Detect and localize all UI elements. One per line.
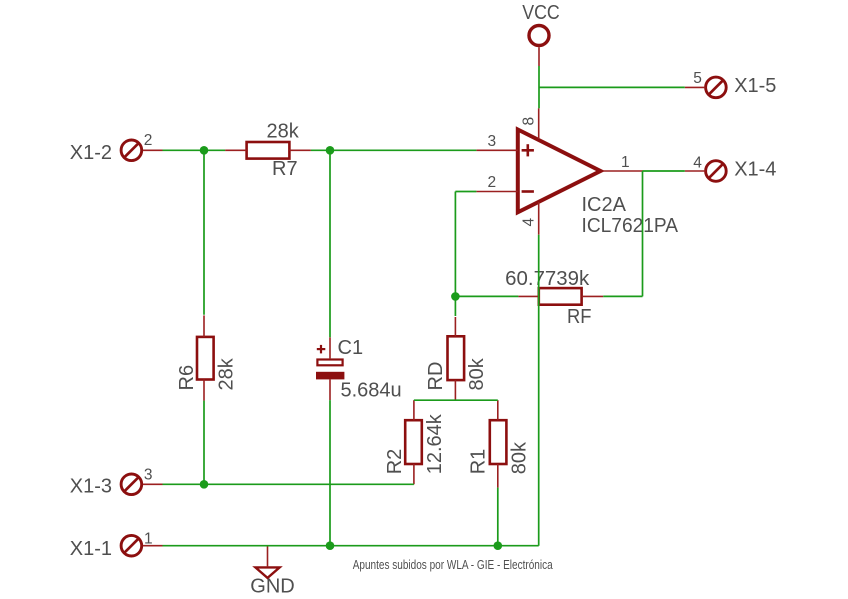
pin stub op-amp pin 1 <box>603 170 643 172</box>
junction node G (ground rail / C1) <box>326 541 335 550</box>
junction node A <box>200 146 209 155</box>
svg-text:R6: R6 <box>176 365 198 391</box>
svg-text:2: 2 <box>144 132 153 149</box>
pin stub X1-2 <box>143 149 163 151</box>
capacitor C1 bottom plate <box>316 372 344 380</box>
terminal X1-3 <box>121 474 142 495</box>
svg-text:R7: R7 <box>272 158 298 180</box>
wire pin2 horizontal <box>455 191 476 193</box>
pin stub X1-4 <box>685 170 706 172</box>
resistor R7 <box>247 142 290 159</box>
svg-text:R2: R2 <box>384 449 406 475</box>
svg-text:C1: C1 <box>338 337 364 359</box>
terminal X1-1 <box>121 535 142 556</box>
capacitor C1 plus sign <box>317 345 326 354</box>
pin stub X1-1 <box>143 545 163 547</box>
wire X1-2 to R7 <box>163 149 226 151</box>
pin stub R7 right <box>289 149 311 151</box>
pin stub R7 left <box>225 149 247 151</box>
pin stub X1-3 <box>143 483 163 485</box>
resistor R6 <box>197 337 214 380</box>
pin stub C1 top <box>329 337 331 358</box>
op-amp minus input mark <box>522 190 534 193</box>
pin stub op-amp pin 3 <box>476 149 517 151</box>
svg-text:X1-1: X1-1 <box>70 538 112 560</box>
svg-text:3: 3 <box>488 133 497 150</box>
wire R6 to X1-3 rail <box>203 401 205 485</box>
pin stub RF left <box>518 295 538 297</box>
op-amp U1 triangle <box>518 130 601 213</box>
svg-text:8: 8 <box>521 117 538 126</box>
wire output to X1-4 <box>643 170 685 172</box>
svg-text:R1: R1 <box>468 449 490 475</box>
pin stub R6 bottom <box>203 380 205 401</box>
resistor R2 <box>405 420 422 464</box>
pin stub RF right <box>582 295 604 297</box>
pin stub GND <box>267 546 269 567</box>
svg-text:VCC: VCC <box>522 2 560 24</box>
wire node B down to C1 <box>329 150 331 337</box>
pin stub C1 bottom <box>329 379 331 400</box>
wire R2 top to R1 top <box>414 399 498 401</box>
resistor R1 <box>490 420 507 464</box>
svg-text:X1-4: X1-4 <box>734 159 776 181</box>
svg-text:1: 1 <box>144 530 153 547</box>
wire pin2 down to node F <box>454 192 456 297</box>
svg-text:1: 1 <box>621 154 630 171</box>
resistor RD <box>448 336 465 380</box>
wire X1-1 ground rail <box>163 545 539 547</box>
pin stub R1 bottom <box>497 464 499 488</box>
wire VCC down <box>538 66 540 108</box>
wire VCC branch to X1-5 <box>539 86 685 88</box>
pin stub R2 bottom <box>413 464 415 484</box>
supply VCC <box>529 26 549 46</box>
pin stub R6 top <box>203 315 205 337</box>
junction node H (ground rail / R1) <box>494 541 503 550</box>
svg-text:60.7739k: 60.7739k <box>505 268 590 290</box>
junction node F (inverting input) <box>451 292 460 301</box>
pin stub X1-5 <box>685 86 706 88</box>
junction node B <box>326 146 335 155</box>
op-amp plus input mark <box>522 144 534 156</box>
svg-text:Apuntes subidos por WLA - GIE: Apuntes subidos por WLA - GIE - Electrón… <box>353 558 553 572</box>
wire RF to feedback corner <box>603 295 642 297</box>
pin stub RD bottom <box>454 380 456 400</box>
svg-text:5.684u: 5.684u <box>341 379 402 401</box>
wire op-amp pin4 down to ground rail <box>538 235 540 546</box>
resistor RF <box>539 288 582 305</box>
terminal X1-2 <box>121 140 142 161</box>
svg-text:5: 5 <box>693 70 702 87</box>
svg-text:4: 4 <box>693 154 702 171</box>
pin stub RD top <box>454 317 456 336</box>
svg-text:80k: 80k <box>466 357 488 390</box>
svg-text:X1-5: X1-5 <box>734 75 776 97</box>
wire node F to RF <box>455 295 518 297</box>
wire node A down to R6 <box>203 150 205 314</box>
wire feedback up to output <box>642 171 644 296</box>
pin stub R1 top <box>497 400 499 420</box>
svg-text:80k: 80k <box>509 441 531 474</box>
wire R1 bottom to ground rail <box>497 488 499 546</box>
svg-text:RF: RF <box>567 306 592 328</box>
svg-text:3: 3 <box>144 467 153 484</box>
pin stub op-amp pin 2 <box>476 191 517 193</box>
wire node F down to RD <box>454 296 456 316</box>
svg-text:28k: 28k <box>215 357 237 390</box>
wire C1 to ground rail <box>329 400 331 546</box>
svg-text:RD: RD <box>425 362 447 391</box>
terminal X1-4 <box>706 161 727 182</box>
svg-text:2: 2 <box>488 174 497 191</box>
svg-text:GND: GND <box>250 576 294 598</box>
junction node C (X1-3 rail) <box>200 480 209 489</box>
svg-text:X1-2: X1-2 <box>70 142 112 164</box>
ground symbol GND <box>255 567 279 578</box>
wire X1-3 rail <box>163 483 414 485</box>
pin stub op-amp pin 8 <box>538 108 540 139</box>
svg-text:ICL7621PA: ICL7621PA <box>582 215 679 237</box>
svg-text:4: 4 <box>521 218 538 227</box>
svg-text:28k: 28k <box>267 121 300 143</box>
svg-text:12.64k: 12.64k <box>424 413 446 474</box>
wire R7 to op-amp pin3 <box>311 149 477 151</box>
svg-text:IC2A: IC2A <box>582 194 627 216</box>
pin stub VCC <box>538 47 540 66</box>
capacitor C1 top plate <box>317 360 342 366</box>
pin stub R2 top <box>413 400 415 420</box>
terminal X1-5 <box>706 77 727 98</box>
pin stub op-amp pin 4 <box>538 202 540 235</box>
svg-text:X1-3: X1-3 <box>70 476 112 498</box>
